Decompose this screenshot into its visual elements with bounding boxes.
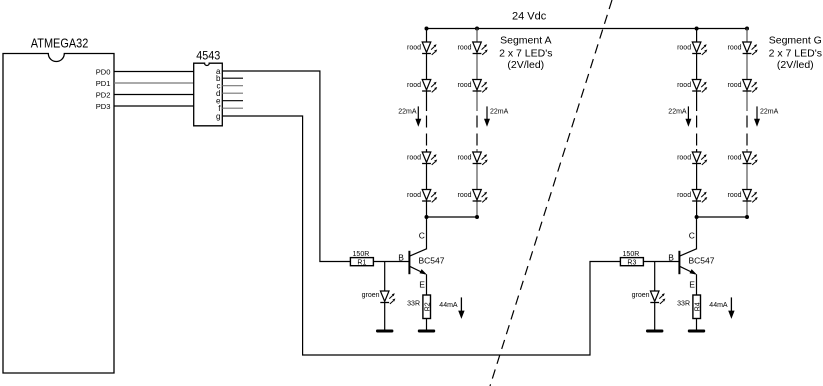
svg-text:(2V/led): (2V/led) xyxy=(777,59,814,71)
wire bottom rail segment G xyxy=(697,216,747,218)
node junction bottom G1 xyxy=(695,215,699,219)
svg-text:ATMEGA32: ATMEGA32 xyxy=(31,37,89,51)
LED D12 rood xyxy=(692,152,707,165)
svg-text:rood: rood xyxy=(407,45,421,52)
svg-text:C: C xyxy=(689,230,695,240)
svg-text:rood: rood xyxy=(457,192,471,199)
svg-text:44mA: 44mA xyxy=(439,302,458,309)
current arrow chain A1 xyxy=(417,106,419,120)
wire chain A2 xyxy=(476,29,478,218)
node junction bottom A1 xyxy=(425,215,429,219)
svg-text:rood: rood xyxy=(677,155,691,162)
current arrow chain A2 xyxy=(486,106,488,120)
node junction rail-chain G1 xyxy=(695,27,699,31)
svg-text:4543: 4543 xyxy=(196,49,220,63)
wire chain A1 xyxy=(426,29,428,218)
svg-text:rood: rood xyxy=(677,82,691,89)
wire chain G1 xyxy=(696,29,698,218)
resistor R1 150R body xyxy=(350,258,373,266)
svg-text:rood: rood xyxy=(677,45,691,52)
wire PD2 to 4543 xyxy=(114,94,194,96)
svg-text:R2: R2 xyxy=(424,302,431,311)
LED D4 rood xyxy=(422,190,437,203)
svg-text:33R: 33R xyxy=(677,301,690,308)
wire chain G1 dashed continuation xyxy=(696,116,698,146)
svg-text:rood: rood xyxy=(407,192,421,199)
svg-text:BC547: BC547 xyxy=(419,255,445,265)
svg-text:PD2: PD2 xyxy=(96,90,111,99)
svg-text:rood: rood xyxy=(727,45,741,52)
wire PD0 to 4543 xyxy=(114,71,194,73)
svg-text:Segment A: Segment A xyxy=(500,35,551,47)
wire PD3 to 4543 xyxy=(114,105,194,107)
svg-text:rood: rood xyxy=(727,192,741,199)
wire stub pin c xyxy=(222,85,243,87)
svg-text:g: g xyxy=(216,112,220,121)
wire pin a to node xyxy=(222,71,350,262)
svg-text:PD0: PD0 xyxy=(96,67,111,76)
LED D14 rood xyxy=(743,42,758,55)
svg-text:groen: groen xyxy=(362,292,380,299)
wire R1 to base xyxy=(373,261,409,263)
wire chain G2 dashed continuation xyxy=(746,116,748,146)
wire R4 to ground xyxy=(696,319,698,330)
resistor R3 150R body xyxy=(620,258,643,266)
wire R2 to ground xyxy=(426,319,428,330)
LED D11 rood xyxy=(692,80,707,93)
svg-text:PD3: PD3 xyxy=(96,102,111,111)
wire chain A1 dashed continuation xyxy=(426,116,428,146)
dashed separator line xyxy=(490,0,612,386)
wire pin g to node xyxy=(222,116,620,355)
wire bottom rail segment A xyxy=(427,216,478,218)
LED D6 rood xyxy=(473,80,488,93)
LED D3 rood xyxy=(422,152,437,165)
LED D10 rood xyxy=(692,42,707,55)
svg-text:22mA: 22mA xyxy=(490,109,509,116)
resistor R4 33R body xyxy=(693,295,701,319)
svg-text:rood: rood xyxy=(407,155,421,162)
LED D8 rood xyxy=(473,190,488,203)
svg-text:rood: rood xyxy=(677,192,691,199)
svg-text:24 Vdc: 24 Vdc xyxy=(512,11,547,23)
node junction rail-chain A2 xyxy=(475,27,479,31)
svg-text:R1: R1 xyxy=(357,259,366,266)
wire stub pin e xyxy=(222,100,243,102)
svg-text:33R: 33R xyxy=(407,301,420,308)
wire chain G2 xyxy=(746,29,748,218)
transistor Q2 BC547 xyxy=(679,217,697,295)
svg-text:C: C xyxy=(419,230,425,240)
LED D9 groen xyxy=(384,262,386,292)
svg-text:B: B xyxy=(398,252,404,262)
resistor R2 33R body xyxy=(423,295,431,319)
svg-text:rood: rood xyxy=(457,155,471,162)
ground under R2 xyxy=(418,330,435,333)
current arrow chain G2 xyxy=(756,106,758,120)
LED D7 rood xyxy=(473,152,488,165)
LED D13 rood xyxy=(692,190,707,203)
svg-text:2 x 7 LED's: 2 x 7 LED's xyxy=(499,48,552,60)
svg-text:rood: rood xyxy=(457,45,471,52)
wire stub pin b xyxy=(222,77,243,79)
svg-text:BC547: BC547 xyxy=(689,255,715,265)
svg-text:rood: rood xyxy=(407,82,421,89)
node junction bottom G2 xyxy=(745,215,749,219)
current arrow chain G1 xyxy=(687,106,689,120)
LED D1 rood xyxy=(422,42,437,55)
svg-text:Segment G: Segment G xyxy=(769,35,822,47)
IC U2 4543 body xyxy=(194,63,223,126)
LED D2 rood xyxy=(422,80,437,93)
wire PD1 to 4543 xyxy=(114,82,194,84)
wire chain A2 dashed continuation xyxy=(476,116,478,146)
svg-text:44mA: 44mA xyxy=(709,302,728,309)
LED D16 rood xyxy=(743,152,758,165)
svg-text:22mA: 22mA xyxy=(760,109,779,116)
svg-text:rood: rood xyxy=(727,155,741,162)
svg-text:E: E xyxy=(419,280,425,290)
svg-text:2 x 7 LED's: 2 x 7 LED's xyxy=(769,48,822,60)
svg-text:(2V/led): (2V/led) xyxy=(507,59,544,71)
svg-text:R3: R3 xyxy=(627,259,636,266)
transistor Q1 BC547 xyxy=(409,217,427,295)
svg-text:22mA: 22mA xyxy=(668,109,687,116)
wire stub pin f xyxy=(222,107,243,109)
svg-text:150R: 150R xyxy=(623,251,640,258)
svg-text:rood: rood xyxy=(727,82,741,89)
LED D15 rood xyxy=(743,80,758,93)
LED D5 rood xyxy=(473,42,488,55)
ground under groen LED xyxy=(376,330,393,333)
svg-text:groen: groen xyxy=(632,292,650,299)
svg-text:B: B xyxy=(668,252,674,262)
wire stub pin d xyxy=(222,92,243,94)
LED D17 rood xyxy=(743,190,758,203)
svg-text:150R: 150R xyxy=(353,251,370,258)
ground under groen LED xyxy=(646,330,663,333)
current arrow 44mA segment G xyxy=(730,297,732,311)
svg-text:R4: R4 xyxy=(694,302,701,311)
svg-text:PD1: PD1 xyxy=(96,79,111,88)
node junction rail-chain G2 xyxy=(745,27,749,31)
wire groen LED to ground xyxy=(384,303,386,330)
IC U1 ATMEGA32 body xyxy=(3,54,114,374)
LED D18 groen xyxy=(654,262,656,292)
wire R3 to base xyxy=(643,261,679,263)
current arrow 44mA segment A xyxy=(460,297,462,311)
node junction bottom A2 xyxy=(475,215,479,219)
wire groen LED to ground xyxy=(654,303,656,330)
wire 24Vdc supply rail xyxy=(427,28,748,30)
svg-text:22mA: 22mA xyxy=(398,109,417,116)
svg-text:rood: rood xyxy=(457,82,471,89)
svg-text:E: E xyxy=(689,280,695,290)
node junction rail-chain A1 xyxy=(425,27,429,31)
ground under R4 xyxy=(688,330,705,333)
